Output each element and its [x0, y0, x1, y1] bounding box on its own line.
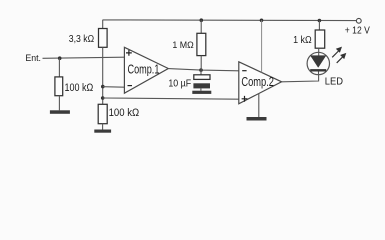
svg-text:Ent.: Ent. — [25, 53, 41, 64]
wire Ent. to Comp.1 + input — [43, 57, 125, 58]
wire 1M top lead — [200, 20, 202, 33]
wire cap to ground — [200, 88, 202, 90]
node junction 1M / cap / output — [199, 68, 203, 72]
wire R1 top lead — [58, 58, 60, 77]
terminal +12V — [356, 18, 361, 23]
wire Comp.2 supply pin — [261, 20, 263, 72]
svg-text:100 kΩ: 100 kΩ — [109, 107, 140, 119]
wire 1k top lead — [318, 21, 320, 31]
node junction input/R1 — [58, 56, 62, 60]
op-amp Comp.1 — [124, 47, 168, 93]
ground G1 — [50, 110, 70, 114]
svg-text:3,3 kΩ: 3,3 kΩ — [69, 33, 94, 45]
wire +12V top rail — [103, 19, 357, 22]
wire Comp.1 output to Comp.2 - input — [168, 69, 238, 71]
LED D1 — [307, 52, 329, 74]
wire R3 bottom lead — [102, 124, 104, 130]
svg-text:1 MΩ: 1 MΩ — [172, 40, 193, 51]
wire to Comp.1 - input — [103, 86, 125, 89]
node junction divider / Comp.1 inverting input — [101, 85, 105, 89]
resistor R4 1 MOhm — [197, 33, 206, 55]
ground G4 — [247, 117, 267, 121]
node junction rail / 1k — [318, 19, 322, 23]
svg-text:LED: LED — [325, 77, 343, 88]
svg-text:10 µF: 10 µF — [168, 79, 191, 90]
wire Comp.2 output to LED — [282, 75, 319, 82]
resistor R3 100 kOhm — [98, 104, 107, 123]
capacitor C1 plate + — [194, 75, 210, 80]
node junction rail / 1M — [200, 18, 204, 22]
resistor R5 1 kOhm — [315, 30, 325, 48]
svg-text:+ 12 V: + 12 V — [345, 25, 370, 37]
wire Comp.2 ground pin — [258, 94, 260, 118]
svg-text:Comp.1: Comp.1 — [128, 62, 160, 76]
resistor R1 100 kOhm — [55, 77, 63, 96]
ground G2 — [94, 130, 111, 133]
LED arrow 1 — [332, 51, 339, 58]
wire to Comp.2 + input (under Comp.1) — [103, 98, 239, 99]
svg-text:1 kΩ: 1 kΩ — [293, 34, 312, 46]
wire R1 bottom lead — [58, 96, 60, 111]
resistor R 3,3 kOhm — [99, 29, 108, 48]
wire 1M bottom lead — [200, 56, 202, 71]
svg-text:Comp.2: Comp.2 — [241, 75, 274, 89]
wire 1k to LED — [318, 48, 320, 55]
capacitor C1 plate - — [193, 83, 210, 88]
svg-text:100 kΩ: 100 kΩ — [65, 82, 94, 94]
wire 3.3k branch from rail — [102, 20, 104, 29]
LED arrow 2 — [337, 56, 344, 63]
capacitor C1 10uF top lead — [200, 70, 202, 75]
node junction divider / feedback wire — [101, 96, 105, 100]
node junction rail / Comp.2 supply — [260, 19, 264, 23]
ground G3 — [192, 91, 211, 94]
wire divider vertical — [102, 47, 104, 104]
op-amp Comp.2 — [239, 62, 282, 104]
